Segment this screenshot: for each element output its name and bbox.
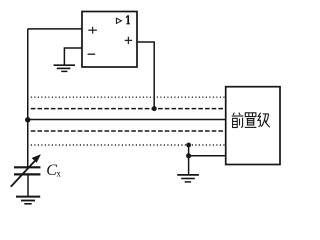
wire: capacitor to ground [27,174,29,196]
wire: − input to ground [64,48,82,65]
op-amp U1 box [82,12,137,68]
outer shield top (dotted) [31,96,226,98]
preamp stage box [226,87,280,165]
capacitor Cx top plate [14,166,40,168]
ground (capacitor) [16,197,40,204]
wire: shield to preamp box [189,155,226,157]
wire: shield tap vertical to ground [188,145,190,174]
junction dot: outer shield tap [186,143,191,148]
label 置 [245,113,257,128]
label 前 [232,113,244,128]
node: center conductor junction dot [25,117,30,122]
wire: U1 output down to inner shield [137,42,154,109]
inner shield bottom (dashed) [31,130,226,132]
svg-text:x: x [56,168,61,178]
U1 noninverting input label + [88,27,97,34]
U1 output label + [125,37,132,44]
U1 inverting input label − [88,53,96,55]
ground (right, shield) [177,175,199,182]
junction dot: shield wire to preamp [186,153,191,158]
junction dot: output to inner shield [152,106,157,111]
wire: + input to left bus [28,28,82,30]
center conductor (solid) [28,119,226,121]
capacitor Cx bottom plate [14,173,40,175]
variable capacitor arrow [11,154,41,187]
outer shield bottom (dotted) [31,144,226,146]
inner shield top (dashed) [31,108,226,110]
label 级 [258,113,270,128]
buffer gain symbol ▷1 [116,15,130,23]
ground (amp inverting input) [54,65,75,71]
wire: left bus vertical [27,29,29,168]
